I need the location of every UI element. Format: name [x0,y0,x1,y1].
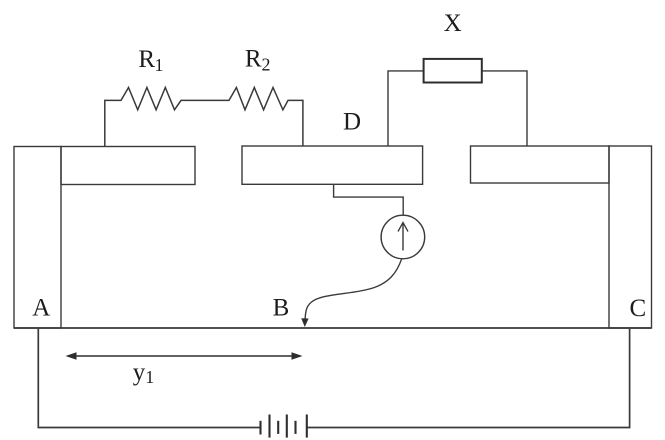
svg-text:2: 2 [262,54,271,74]
svg-text:D: D [343,109,361,136]
svg-text:R: R [138,46,155,73]
svg-text:C: C [629,295,646,322]
svg-text:1: 1 [155,55,164,75]
svg-text:1: 1 [145,367,154,387]
svg-text:R: R [245,46,262,73]
svg-text:X: X [444,10,462,37]
svg-text:y: y [133,359,146,386]
svg-text:A: A [32,294,50,321]
svg-text:B: B [273,294,290,321]
